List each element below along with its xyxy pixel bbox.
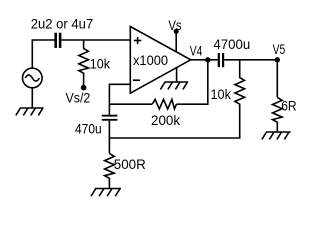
label R1 value "10k" [90, 55, 111, 71]
label node "Vs" [168, 17, 181, 33]
wire op-amp ground pin [176, 68, 178, 82]
ground (below AC source) [16, 108, 44, 115]
label C3 value "470u" [75, 120, 102, 136]
wire from AC source bottom to ground [31, 88, 33, 108]
svg-text:V5: V5 [273, 41, 286, 57]
ground (below 500R) [91, 189, 121, 197]
svg-text:470u: 470u [75, 120, 102, 136]
op-amp U1 triangle [130, 27, 190, 94]
capacitor C3 470u [102, 115, 118, 121]
svg-text:10k: 10k [211, 86, 232, 102]
svg-text:200k: 200k [151, 112, 181, 128]
wire op-amp output to C2 left plate [191, 59, 218, 61]
wire C2 right plate to node V5 [224, 59, 277, 61]
label R4 value "6R" [281, 97, 296, 113]
svg-text:500R: 500R [114, 156, 146, 172]
wire feedback bottom rail (470u junction to 10k bottom) [109, 107, 239, 138]
capacitor C2 4700u [218, 53, 225, 67]
svg-text:6R: 6R [281, 97, 296, 113]
ground (below 6R) [262, 132, 291, 139]
capacitor C1 (2u2 or 4u7) [54, 33, 61, 48]
label C1 value "2u2 or 4u7" [31, 16, 94, 32]
label node "Vs/2" [66, 90, 91, 106]
label C2 value "4700u" [213, 36, 250, 52]
wire C3 bottom to 500R top (through junction) [108, 121, 110, 154]
ground (op-amp pin) [160, 82, 188, 89]
wire 200k rail (minus node to V4) [109, 60, 207, 104]
wire op-amp minus input to feedback node [109, 84, 130, 114]
wire V5 down to 6R [276, 60, 278, 98]
resistor R3 10k (to feedback rail) [235, 60, 245, 108]
op-amp U1 minus input symbol [133, 79, 140, 81]
node Vs/2 (terminal dot) [81, 85, 87, 91]
label R5 value "500R" [114, 156, 146, 172]
wire Vs supply pin to op-amp top edge [175, 31, 177, 52]
label node "V4" [190, 42, 203, 58]
label U1 gain "x1000" [133, 52, 168, 68]
wire from AC source top to C1 left plate [32, 40, 54, 69]
svg-text:2u2 or 4u7: 2u2 or 4u7 [31, 16, 94, 32]
svg-text:Vs/2: Vs/2 [66, 90, 91, 106]
label R2 value "200k" [151, 112, 181, 128]
label node "V5" [273, 41, 286, 57]
svg-text:x1000: x1000 [133, 52, 168, 68]
resistor R2 200k (feedback) [152, 99, 176, 109]
wire from C1 right plate to op-amp + input [61, 39, 130, 41]
svg-text:V4: V4 [190, 42, 203, 58]
svg-text:4700u: 4700u [213, 36, 250, 52]
node Vs (terminal dot) [174, 29, 179, 34]
resistor R1 10k (bias divider) [79, 40, 89, 85]
node V4 (junction dot) [205, 57, 210, 62]
op-amp U1 plus input symbol [134, 37, 141, 44]
node V5 (junction dot) [275, 57, 280, 62]
resistor R4 6R (load) [273, 97, 283, 132]
resistor R5 500R [105, 154, 115, 189]
AC source V1 (sine generator) [23, 68, 43, 88]
svg-text:10k: 10k [90, 55, 111, 71]
label R3 value "10k" [211, 86, 232, 102]
